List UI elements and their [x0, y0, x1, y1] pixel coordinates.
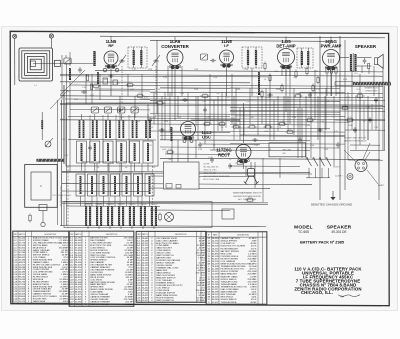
svg-text:DET-AMP: DET-AMP	[276, 43, 295, 48]
svg-text:40 MF: 40 MF	[250, 302, 257, 304]
svg-text:C-9: C-9	[159, 100, 162, 102]
svg-text:2.2M: 2.2M	[236, 121, 240, 123]
svg-text:21-377: 21-377	[142, 300, 149, 302]
svg-text:PWR.AMP: PWR.AMP	[321, 43, 342, 48]
svg-text:R-7: R-7	[63, 139, 66, 141]
svg-text:SOCKET END VIEW OF: SOCKET END VIEW OF	[344, 138, 367, 140]
svg-text:C-7: C-7	[247, 101, 250, 103]
svg-text:GANG/WAVEBAND SWITCH: GANG/WAVEBAND SWITCH	[233, 192, 262, 195]
svg-text:L-15: L-15	[132, 69, 136, 71]
svg-text:C-28: C-28	[296, 93, 300, 95]
svg-text:C-30: C-30	[308, 117, 312, 119]
svg-text:TUBULAR BAND: TUBULAR BAND	[221, 283, 238, 286]
svg-text:C-19: C-19	[120, 117, 124, 119]
svg-text:B-BATT: B-BATT	[378, 184, 385, 187]
svg-text:R-1: R-1	[139, 93, 142, 95]
svg-text:.01: .01	[229, 159, 232, 161]
svg-text:2.2M: 2.2M	[244, 69, 248, 71]
svg-text:DESCRIPTION: DESCRIPTION	[237, 234, 249, 236]
svg-text:BATTERY PACK Nº Z985: BATTERY PACK Nº Z985	[300, 241, 344, 245]
svg-text:S-26: S-26	[136, 300, 141, 302]
svg-text:R-14: R-14	[348, 117, 352, 119]
svg-text:CHICAGO, ILL.: CHICAGO, ILL.	[301, 290, 333, 295]
svg-text:BC 540-1600 KC: BC 540-1600 KC	[204, 167, 220, 169]
svg-text:.05: .05	[213, 145, 216, 147]
svg-text:PART Nº: PART Nº	[142, 233, 149, 236]
svg-text:BATTERY RECEPTACLE: BATTERY RECEPTACLE	[344, 140, 367, 143]
svg-text:3.3 MEG: 3.3 MEG	[124, 304, 133, 306]
svg-text:.0005: .0005	[348, 125, 353, 127]
svg-text:DIAL CORD BAND: DIAL CORD BAND	[221, 288, 240, 291]
svg-text:C-1: C-1	[34, 78, 37, 80]
svg-text:2.2M: 2.2M	[292, 117, 296, 119]
svg-text:OSC: OSC	[202, 134, 211, 139]
svg-text:ON-OFF SWITCH R-17 VOL: ON-OFF SWITCH R-17 VOL	[61, 186, 63, 206]
svg-text:.0005: .0005	[103, 79, 108, 81]
svg-text:GANG MICA: GANG MICA	[33, 300, 46, 303]
svg-text:2.2M: 2.2M	[314, 71, 318, 73]
svg-text:2.2M: 2.2M	[266, 97, 270, 99]
svg-text:SW2 7-22 MC: SW2 7-22 MC	[204, 173, 217, 175]
svg-text:C-12: C-12	[220, 121, 224, 123]
svg-text:SWITCH TUBULAR: SWITCH TUBULAR	[90, 303, 109, 306]
svg-text:ALL VOLTAGES MEASURED: ALL VOLTAGES MEASURED	[204, 175, 231, 178]
svg-text:L-17: L-17	[306, 97, 310, 99]
svg-text:.05: .05	[151, 127, 154, 129]
svg-text:2.2M: 2.2M	[163, 77, 167, 79]
svg-text:SPEAKER: SPEAKER	[355, 44, 377, 49]
svg-text:SPEAKER PLUG: SPEAKER PLUG	[364, 87, 378, 90]
svg-text:DESCRIPTION: DESCRIPTION	[106, 234, 118, 236]
svg-text:A+ BATT: A+ BATT	[335, 175, 343, 178]
svg-text:PART: PART	[213, 233, 217, 236]
svg-text:R-14: R-14	[156, 89, 160, 91]
svg-text:C: C	[40, 184, 42, 188]
svg-text:SWITCH SWITCH: SWITCH SWITCH	[156, 300, 174, 302]
svg-text:R-6: R-6	[355, 73, 358, 75]
svg-text:TC 605: TC 605	[298, 230, 309, 234]
svg-text:R-21: R-21	[274, 71, 278, 73]
svg-text:BATTERY SPRING: BATTERY SPRING	[221, 250, 240, 253]
svg-text:2.2M: 2.2M	[226, 153, 230, 155]
svg-text:R-17: R-17	[144, 97, 148, 99]
svg-text:31-437: 31-437	[212, 302, 219, 304]
svg-text:DESCRIPTION: DESCRIPTION	[175, 234, 187, 236]
svg-text:C-20: C-20	[250, 124, 254, 126]
svg-text:C-34: C-34	[82, 87, 86, 89]
svg-text:CONVERTER: CONVERTER	[161, 44, 189, 49]
svg-text:R-15: R-15	[358, 93, 362, 95]
svg-text:C-17: C-17	[208, 157, 212, 159]
svg-text:R-9: R-9	[267, 124, 270, 126]
svg-text:R-21: R-21	[238, 160, 242, 162]
svg-text:.01: .01	[195, 125, 198, 127]
svg-text:.01: .01	[327, 101, 330, 103]
svg-text:CONNECTIONS: CONNECTIONS	[365, 90, 378, 92]
svg-text:2.2M: 2.2M	[286, 101, 290, 103]
svg-text:C-27: C-27	[12, 301, 17, 303]
svg-text:DESCRIPTION: DESCRIPTION	[44, 234, 56, 236]
svg-text:R-27: R-27	[226, 97, 230, 99]
svg-text:PLUG P1: PLUG P1	[333, 167, 341, 169]
svg-text:R-5: R-5	[117, 83, 120, 85]
svg-text:SW1 2.3-7 MC: SW1 2.3-7 MC	[204, 170, 218, 172]
svg-text:COIL CARBON: COIL CARBON	[221, 260, 236, 263]
svg-text:R-28: R-28	[69, 304, 74, 306]
svg-text:C-34: C-34	[343, 105, 347, 107]
svg-text:2.2M: 2.2M	[316, 89, 320, 91]
svg-text:PART Nº: PART Nº	[18, 233, 25, 236]
svg-text:TUBULAR MICA: TUBULAR MICA	[221, 301, 238, 304]
svg-text:49-301 DE: 49-301 DE	[331, 230, 346, 234]
svg-text:DENOTES CHASSIS GROUND: DENOTES CHASSIS GROUND	[311, 202, 352, 206]
svg-text:L-10: L-10	[202, 101, 206, 103]
svg-text:.01: .01	[264, 79, 267, 81]
svg-text:R-6: R-6	[235, 124, 238, 126]
svg-text:.0001: .0001	[62, 301, 68, 303]
svg-text:NOTE:: NOTE:	[204, 164, 211, 166]
svg-text:WAVEBAND SWITCH SHOWN IN POSIT: WAVEBAND SWITCH SHOWN IN POSITION FOR BA…	[81, 160, 134, 163]
svg-text:2.2M: 2.2M	[198, 149, 202, 151]
svg-text:L-1: L-1	[34, 85, 37, 87]
svg-text:.0005: .0005	[162, 149, 167, 151]
svg-text:C-36: C-36	[60, 119, 64, 121]
svg-text:.05: .05	[115, 69, 118, 71]
svg-text:R-5: R-5	[139, 163, 142, 165]
svg-text:11-172: 11-172	[19, 301, 26, 303]
svg-text:74-560: 74-560	[75, 304, 82, 306]
svg-text:.0005: .0005	[236, 89, 241, 91]
svg-text:R-19: R-19	[248, 197, 252, 199]
svg-text:BALLAST: BALLAST	[283, 149, 293, 152]
svg-text:R-3: R-3	[357, 89, 360, 91]
svg-text:.01: .01	[279, 127, 282, 129]
svg-text:RES TUBULAR: RES TUBULAR	[221, 293, 236, 296]
svg-text:I.F: I.F	[224, 43, 229, 48]
svg-text:.0005: .0005	[336, 93, 341, 95]
svg-text:.05: .05	[221, 127, 224, 129]
svg-text:C-7: C-7	[204, 93, 207, 95]
svg-text:R-11: R-11	[288, 129, 292, 131]
svg-text:.05: .05	[125, 167, 128, 169]
svg-text:C-54: C-54	[254, 145, 258, 147]
svg-text:2.2M: 2.2M	[366, 107, 370, 109]
svg-text:35 MMF: 35 MMF	[197, 300, 206, 302]
svg-text:C-24: C-24	[280, 121, 284, 123]
svg-text:2.2M: 2.2M	[213, 77, 217, 79]
svg-text:L-18: L-18	[306, 125, 310, 127]
svg-text:C-35: C-35	[374, 127, 378, 129]
svg-text:C-3: C-3	[95, 83, 98, 85]
svg-text:2.2M: 2.2M	[194, 69, 198, 71]
svg-text:.01: .01	[153, 167, 156, 169]
svg-text:R-4: R-4	[206, 121, 209, 123]
svg-text:BAND BRACKET: BAND BRACKET	[221, 273, 238, 276]
svg-text:C-40: C-40	[168, 149, 172, 151]
svg-text:.01: .01	[297, 149, 300, 151]
svg-text:RF: RF	[108, 43, 114, 48]
svg-text:PART Nº: PART Nº	[75, 233, 82, 236]
svg-text:.0005: .0005	[264, 131, 269, 133]
svg-text:C-5: C-5	[129, 82, 132, 84]
svg-text:2.2M: 2.2M	[164, 121, 168, 123]
svg-text:AT 117V AC LINE: AT 117V AC LINE	[204, 178, 220, 181]
